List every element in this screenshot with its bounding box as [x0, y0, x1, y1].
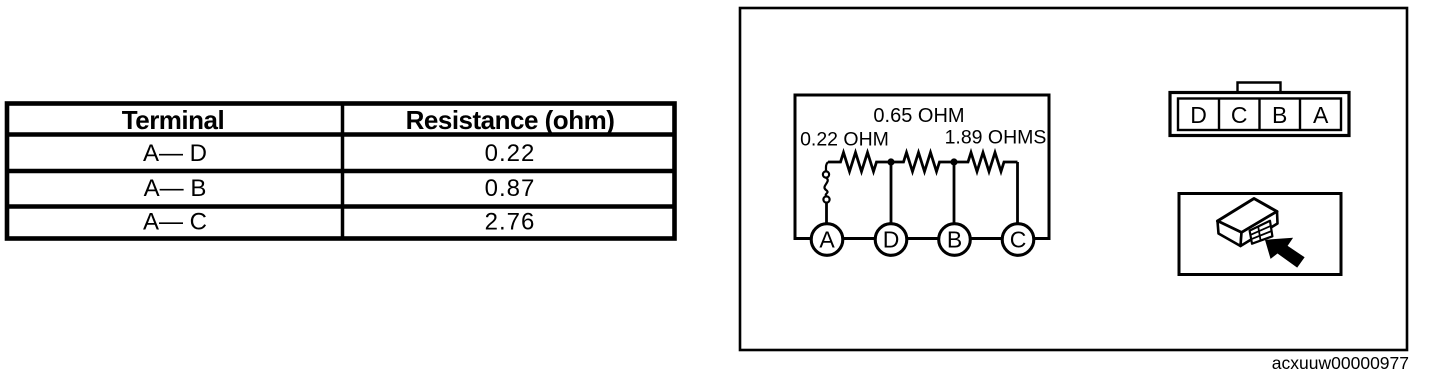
svg-text:B: B	[947, 227, 962, 253]
svg-text:A— C: A— C	[143, 209, 207, 236]
wire: right drop to terminal C	[1016, 162, 1019, 223]
svg-text:D: D	[883, 227, 900, 253]
svg-text:D: D	[1190, 102, 1207, 128]
resistor R2 (0.65 OHM) with wires	[891, 153, 954, 172]
svg-text:2.76: 2.76	[485, 209, 536, 236]
svg-text:B: B	[1272, 102, 1287, 128]
svg-text:C: C	[1010, 227, 1027, 253]
svg-text:0.87: 0.87	[485, 175, 536, 202]
svg-text:C: C	[1231, 102, 1248, 128]
svg-text:0.22 OHM: 0.22 OHM	[800, 129, 889, 151]
terminal A	[811, 224, 843, 256]
inset box for component icon	[1179, 194, 1341, 275]
table: terminal resistance table grid	[5, 104, 676, 239]
terminal B	[939, 224, 971, 256]
terminal D	[875, 224, 907, 256]
svg-text:0.22: 0.22	[485, 140, 536, 167]
connector latch tab	[1238, 83, 1281, 93]
connector inner cavity frame	[1178, 99, 1341, 131]
svg-text:1.89 OHMS: 1.89 OHMS	[945, 127, 1047, 149]
figure id caption	[1272, 353, 1409, 373]
component icon: connector body left face	[1218, 221, 1242, 246]
resistor R1 (0.22 OHM) with wires	[828, 153, 891, 172]
value label 1.89 OHMS	[945, 127, 1047, 149]
svg-text:A: A	[819, 227, 835, 253]
connector outline (pin face view)	[1170, 93, 1349, 136]
svg-text:A— D: A— D	[143, 140, 207, 167]
junction node at D branch	[887, 158, 894, 165]
junction node at B branch	[950, 158, 957, 165]
component icon: terminal block with slots	[1250, 221, 1273, 244]
svg-text:A— B: A— B	[144, 175, 207, 202]
resistor R3 (1.89 OHMS) with wires	[954, 153, 1018, 172]
svg-text:Terminal: Terminal	[122, 105, 224, 135]
figure frame	[740, 8, 1407, 350]
circuit enclosure box	[795, 95, 1049, 239]
wire: junction to terminal B	[953, 162, 956, 223]
component icon: connector body top face	[1218, 199, 1278, 233]
svg-text:A: A	[1313, 102, 1329, 128]
svg-text:acxuuw00000977: acxuuw00000977	[1272, 353, 1409, 373]
pointer arrow	[1266, 239, 1304, 267]
component icon: connector body right face	[1241, 212, 1278, 247]
value label 0.22 OHM	[800, 129, 889, 151]
wire: junction to terminal D	[890, 162, 893, 223]
value label 0.65 OHM	[873, 105, 964, 127]
sensing element branch to terminal A (squiggle with open contacts)	[823, 162, 830, 223]
terminal C	[1002, 224, 1034, 256]
svg-text:Resistance (ohm): Resistance (ohm)	[406, 105, 615, 135]
svg-text:0.65 OHM: 0.65 OHM	[873, 105, 964, 127]
